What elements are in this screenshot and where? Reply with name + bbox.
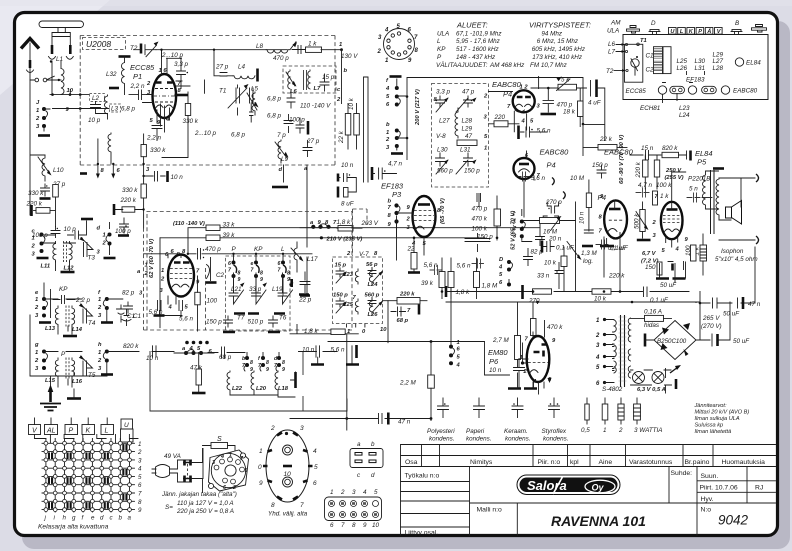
svg-text:2: 2 (270, 425, 275, 432)
svg-text:U: U (124, 422, 129, 429)
svg-text:Mittari 20 k/V (AVO B): Mittari 20 k/V (AVO B) (695, 410, 750, 416)
caps mid (250, 88, 254, 122)
svg-text:470 k: 470 k (472, 216, 488, 223)
switch matrix band selector (29, 425, 134, 443)
svg-text:VIRITYSPISTEET:: VIRITYSPISTEET: (529, 21, 591, 30)
svg-text:100: 100 (207, 298, 218, 305)
svg-text:6,8 p: 6,8 p (231, 132, 246, 139)
2,2p cap (53, 296, 75, 304)
1k power resistor (700, 245, 707, 261)
svg-text:4: 4 (313, 448, 317, 455)
svg-text:50 uF: 50 uF (723, 311, 740, 318)
svg-text:49 VA: 49 VA (164, 453, 181, 460)
svg-text:h: h (63, 515, 67, 522)
svg-text:VÄLITAAJUUDET:: VÄLITAAJUUDET: (436, 61, 488, 69)
svg-text:110 -140 V: 110 -140 V (300, 103, 331, 110)
svg-text:Kelasarja alta kuvattuna: Kelasarja alta kuvattuna (38, 524, 109, 531)
svg-text:100 k: 100 k (656, 182, 672, 189)
svg-text:EABC80: EABC80 (540, 148, 570, 157)
svg-text:L9: L9 (281, 156, 289, 163)
svg-text:L13: L13 (45, 326, 56, 332)
Salora Oy logo (517, 475, 620, 495)
b f d contact stacks over coils (242, 356, 285, 373)
EF183 tube (413, 196, 436, 237)
svg-text:5: 5 (374, 489, 378, 496)
svg-text:1: 1 (259, 448, 263, 455)
svg-text:Keraam.: Keraam. (504, 428, 528, 435)
svg-text:1,8 M: 1,8 M (482, 283, 499, 290)
dashed enclosure band filter (144, 212, 353, 331)
top feed wire (407, 78, 583, 160)
svg-text:2: 2 (595, 333, 600, 339)
svg-text:7: 7 (138, 491, 142, 498)
220k horizontal resistor (122, 207, 135, 212)
svg-text:(270 V): (270 V) (701, 323, 722, 330)
svg-text:100 k: 100 k (472, 226, 488, 233)
svg-text:L2: L2 (92, 95, 100, 102)
svg-text:d: d (100, 515, 104, 522)
T3 trimmer (81, 238, 93, 257)
svg-text:C1: C1 (646, 53, 654, 60)
svg-text:kpl: kpl (570, 459, 579, 466)
svg-text:(110 -140 V): (110 -140 V) (173, 221, 205, 227)
svg-text:6 Mhz, 15 Mhz: 6 Mhz, 15 Mhz (537, 38, 579, 45)
svg-text:P4: P4 (503, 90, 512, 99)
svg-text:62 V (60 -70 V): 62 V (60 -70 V) (149, 239, 155, 278)
dipole antenna (39, 21, 84, 28)
svg-text:3 WATTIA: 3 WATTIA (634, 427, 662, 434)
svg-text:2,2 M: 2,2 M (399, 380, 417, 387)
svg-text:5,6 n: 5,6 n (424, 262, 439, 269)
svg-text:470 p: 470 p (472, 206, 488, 213)
svg-text:EM80: EM80 (488, 348, 508, 357)
svg-text:e: e (251, 261, 254, 267)
68p cap (208, 347, 245, 358)
svg-text:L23: L23 (679, 105, 690, 112)
svg-text:L7: L7 (314, 86, 322, 92)
svg-text:(255 V): (255 V) (665, 175, 684, 181)
svg-text:10: 10 (372, 522, 380, 529)
svg-text:8: 8 (271, 502, 275, 509)
arrows 8 6 from U2008 box (98, 164, 113, 175)
svg-text:2,2 p: 2,2 p (75, 297, 91, 304)
svg-text:5,6 n: 5,6 n (331, 347, 346, 354)
svg-text:1 6: 1 6 (159, 68, 168, 74)
svg-text:1: 1 (603, 427, 607, 434)
title block table grid (401, 445, 776, 536)
svg-text:10 n: 10 n (341, 162, 354, 169)
svg-text:22 k: 22 k (338, 130, 345, 144)
svg-text:KP: KP (254, 246, 263, 253)
tube circles in layout (658, 86, 666, 94)
svg-text:4: 4 (363, 489, 367, 496)
svg-text:L11: L11 (41, 264, 51, 270)
svg-text:110 ja 127 V = 1,0 A: 110 ja 127 V = 1,0 A (177, 500, 234, 507)
svg-text:Nimitys: Nimitys (470, 459, 493, 466)
speaker (726, 207, 732, 218)
svg-text:AM: AM (610, 20, 621, 27)
matrix wires (42, 443, 135, 509)
svg-text:2...10 p: 2...10 p (194, 130, 217, 137)
svg-text:220: 220 (494, 114, 506, 121)
svg-text:P4: P4 (598, 195, 607, 202)
svg-text:KP: KP (437, 46, 446, 53)
svg-text:L31: L31 (460, 147, 471, 154)
svg-text:820 k: 820 k (662, 145, 678, 152)
svg-text:ULA: ULA (607, 28, 619, 35)
svg-text:L17: L17 (307, 256, 318, 263)
svg-text:U2008: U2008 (86, 39, 111, 49)
svg-text:1: 1 (36, 108, 39, 114)
EL84 tube (661, 202, 683, 239)
svg-text:L27: L27 (713, 58, 724, 65)
svg-text:L5: L5 (251, 86, 259, 93)
svg-text:5"x10" 4,5 ohm: 5"x10" 4,5 ohm (715, 256, 758, 263)
svg-text:100 p: 100 p (289, 117, 305, 124)
svg-text:150 p: 150 p (333, 293, 348, 299)
svg-text:b: b (371, 441, 375, 448)
svg-text:5,6 n: 5,6 n (537, 128, 552, 135)
oscillator sub box (226, 256, 291, 331)
svg-text:L16: L16 (72, 379, 83, 385)
svg-text:L4: L4 (238, 64, 246, 71)
svg-text:L30: L30 (437, 147, 448, 154)
svg-text:L18: L18 (278, 386, 289, 392)
L3 coil (105, 95, 108, 119)
1-10 connector strip (330, 489, 380, 529)
svg-text:10 k: 10 k (544, 260, 557, 267)
svg-text:d: d (371, 472, 375, 479)
svg-text:10 k: 10 k (348, 97, 355, 110)
svg-text:67,1 -101,9 Mhz: 67,1 -101,9 Mhz (456, 30, 502, 37)
svg-text:203 V: 203 V (361, 220, 379, 227)
svg-text:1,8 k: 1,8 k (337, 219, 352, 226)
svg-text:1: 1 (145, 263, 148, 269)
svg-text:5: 5 (138, 474, 142, 481)
svg-text:1: 1 (457, 340, 460, 346)
svg-text:18 k: 18 k (563, 109, 576, 116)
10n cap to ground bar (142, 175, 144, 177)
svg-text:6: 6 (228, 261, 231, 267)
svg-text:1 k: 1 k (660, 193, 669, 200)
svg-text:220 ja 250 V = 0,8 A: 220 ja 250 V = 0,8 A (176, 508, 234, 515)
svg-text:10: 10 (380, 327, 387, 333)
svg-text:8: 8 (250, 360, 253, 366)
dipole plug electrodes (52, 45, 70, 54)
svg-text:1: 1 (484, 146, 487, 152)
tuner shaft circle (631, 59, 639, 67)
svg-text:6,3 V 0,5 A: 6,3 V 0,5 A (637, 387, 666, 393)
svg-text:1: 1 (386, 130, 389, 136)
svg-text:L12: L12 (64, 266, 75, 272)
svg-text:L27: L27 (439, 118, 450, 125)
svg-text:Polyesteri: Polyesteri (427, 428, 455, 435)
L11 L12 coils (53, 242, 72, 263)
svg-text:0,1 uF: 0,1 uF (650, 297, 669, 304)
svg-text:39 k: 39 k (421, 280, 434, 287)
svg-text:0,1 uF: 0,1 uF (608, 245, 627, 252)
svg-text:470 p: 470 p (205, 246, 221, 253)
svg-text:P: P (698, 29, 702, 35)
svg-text:47 n: 47 n (398, 419, 411, 426)
svg-text:T1: T1 (219, 88, 226, 95)
heater lamps (633, 372, 645, 384)
svg-text:15 p: 15 p (335, 263, 347, 269)
cap row (636, 188, 649, 197)
antenna arrow (21, 39, 39, 49)
svg-text:100: 100 (685, 245, 692, 256)
tube pin wires (143, 50, 191, 132)
svg-text:3: 3 (300, 425, 304, 432)
svg-text:68 p: 68 p (219, 354, 232, 361)
svg-text:1: 1 (161, 268, 164, 274)
svg-text:200 V (217 V): 200 V (217 V) (415, 89, 421, 126)
wire to L2 (50, 95, 113, 109)
ECC85 tube P1 (153, 74, 177, 118)
svg-text:220 k: 220 k (608, 273, 625, 280)
svg-text:150 p: 150 p (477, 234, 493, 241)
svg-text:P6: P6 (489, 357, 499, 366)
svg-text:Huomautuksia: Huomautuksia (722, 459, 766, 466)
tuner sub box (625, 44, 643, 82)
svg-text:68 p: 68 p (397, 318, 409, 324)
svg-text:L8: L8 (256, 43, 264, 50)
arrow (670, 367, 678, 373)
svg-text:Oy: Oy (592, 483, 605, 493)
330k lower (141, 184, 146, 198)
svg-text:T3: T3 (88, 255, 96, 262)
svg-text:Malli n:o: Malli n:o (477, 507, 503, 514)
V-7 IF box (333, 257, 383, 324)
svg-text:C2: C2 (646, 67, 655, 74)
svg-text:g: g (72, 515, 76, 522)
svg-text:9: 9 (287, 277, 290, 283)
svg-text:L20: L20 (256, 386, 267, 392)
trimmer caps T7 T6 (229, 273, 293, 304)
svg-text:kondens.: kondens. (429, 436, 455, 443)
mains switch contacts (185, 460, 191, 482)
svg-text:220 k: 220 k (120, 197, 137, 204)
svg-text:3: 3 (352, 489, 356, 496)
svg-text:4: 4 (220, 454, 224, 460)
svg-text:hidas: hidas (644, 322, 660, 329)
svg-text:6,8 p: 6,8 p (121, 106, 136, 113)
svg-text:265 V: 265 V (702, 315, 720, 322)
svg-text:0,16 A: 0,16 A (644, 309, 662, 316)
svg-text:220 k: 220 k (635, 161, 642, 178)
svg-text:6: 6 (138, 482, 142, 489)
svg-text:AL: AL (46, 428, 56, 435)
antenna lead wire (29, 43, 31, 80)
dashed link to V-7 (353, 209, 368, 256)
svg-text:60 -90 V (70 -90 V): 60 -90 V (70 -90 V) (619, 135, 625, 184)
svg-text:L6: L6 (290, 89, 298, 95)
50uF + 47n caps right (700, 298, 755, 308)
svg-text:log.: log. (583, 258, 593, 265)
svg-text:C2: C2 (216, 272, 225, 279)
210V supply rail (413, 226, 416, 229)
svg-text:5 n: 5 n (689, 186, 698, 193)
svg-text:Piirt. 10.7.06: Piirt. 10.7.06 (700, 485, 738, 492)
svg-text:1: 1 (98, 350, 101, 356)
svg-text:1,3 M: 1,3 M (581, 250, 598, 257)
svg-text:27 p: 27 p (215, 64, 229, 71)
svg-text:P2201B: P2201B (688, 176, 710, 183)
svg-text:L29: L29 (462, 126, 473, 133)
svg-text:15 p: 15 p (322, 74, 335, 81)
svg-text:4,7 n: 4,7 n (388, 161, 403, 168)
svg-text:6: 6 (313, 480, 317, 487)
svg-text:9: 9 (260, 277, 263, 283)
L10 variable coil (38, 155, 50, 181)
svg-text:5,6 n: 5,6 n (457, 263, 472, 270)
svg-text:V-7: V-7 (359, 251, 369, 258)
svg-text:Liittyy osal.: Liittyy osal. (405, 530, 439, 537)
svg-text:330 k: 330 k (28, 190, 44, 197)
svg-text:330 k: 330 k (183, 118, 199, 125)
svg-text:RJ: RJ (755, 485, 763, 492)
ground bars (656, 277, 686, 280)
svg-text:5: 5 (314, 464, 318, 471)
svg-text:1: 1 (35, 350, 38, 356)
svg-text:4: 4 (138, 466, 142, 473)
core (621, 315, 625, 387)
svg-text:33 p: 33 p (249, 286, 262, 293)
svg-text:220 k: 220 k (26, 201, 43, 208)
svg-text:kondens.: kondens. (466, 436, 492, 443)
svg-text:6,8 p: 6,8 p (267, 113, 282, 120)
svg-text:Paperi: Paperi (466, 428, 485, 435)
svg-text:T6: T6 (279, 315, 287, 322)
svg-text:T5: T5 (88, 372, 96, 379)
svg-text:L25: L25 (343, 302, 354, 308)
svg-text:ULA: ULA (437, 30, 449, 37)
svg-text:9: 9 (138, 507, 142, 514)
chassis layout box (623, 35, 768, 100)
svg-text:B250C100: B250C100 (657, 338, 687, 345)
svg-text:9: 9 (266, 367, 269, 373)
2,2n cathode cap (152, 110, 162, 141)
svg-text:Suhde:: Suhde: (671, 470, 693, 477)
svg-text:1: 1 (229, 453, 232, 459)
svg-text:a: a (357, 441, 361, 448)
svg-text:220 k: 220 k (399, 292, 415, 298)
svg-text:RAVENNA 101: RAVENNA 101 (551, 513, 646, 529)
legend: paper capacitor symbol (474, 398, 485, 418)
svg-text:d: d (97, 226, 101, 232)
ground bar (80, 172, 87, 175)
svg-text:2,2 n: 2,2 n (130, 83, 146, 90)
svg-text:L19: L19 (272, 286, 283, 293)
svg-text:10 n: 10 n (579, 211, 586, 224)
svg-text:g: g (34, 342, 39, 348)
svg-text:8: 8 (266, 360, 269, 366)
svg-text:8: 8 (138, 499, 142, 506)
svg-text:22 k: 22 k (599, 136, 613, 143)
svg-text:Suun.: Suun. (701, 473, 719, 480)
svg-text:L32: L32 (106, 71, 117, 78)
svg-text:Ilman lähetettä: Ilman lähetettä (695, 429, 732, 435)
U box (121, 419, 133, 429)
svg-text:Isophon: Isophon (721, 248, 744, 255)
svg-text:b: b (344, 68, 348, 74)
svg-text:173 kHz, 410 kHz: 173 kHz, 410 kHz (532, 54, 583, 61)
svg-text:10 n: 10 n (302, 347, 315, 354)
right screw terminal (752, 25, 766, 33)
svg-text:5,6 n: 5,6 n (531, 175, 546, 182)
svg-text:L23: L23 (343, 272, 354, 278)
svg-text:7: 7 (341, 522, 345, 529)
svg-text:7: 7 (300, 502, 304, 509)
svg-text:500 k: 500 k (634, 213, 641, 229)
svg-text:47 p: 47 p (462, 89, 475, 96)
svg-text:T2: T2 (606, 68, 614, 75)
svg-text:L: L (281, 246, 285, 253)
svg-text:22 p: 22 p (298, 297, 312, 304)
svg-text:V-8: V-8 (436, 133, 446, 140)
svg-text:L22: L22 (232, 386, 243, 392)
svg-text:8: 8 (352, 522, 356, 529)
svg-text:1: 1 (103, 233, 106, 239)
svg-text:L: L (680, 29, 684, 35)
svg-text:EABC80: EABC80 (492, 80, 522, 89)
svg-text:470 p: 470 p (557, 102, 573, 109)
svg-text:82 p: 82 p (122, 290, 135, 297)
svg-text:d: d (279, 167, 283, 173)
svg-text:L28: L28 (713, 65, 724, 72)
100 resistor (691, 245, 697, 261)
svg-text:e: e (91, 515, 95, 522)
svg-text:L26: L26 (368, 312, 379, 318)
bridge rectifier B250C100 (654, 321, 696, 360)
svg-text:10 n: 10 n (171, 174, 184, 181)
svg-text:15 n: 15 n (641, 145, 654, 152)
svg-text:8: 8 (282, 360, 285, 366)
svg-text:4: 4 (384, 28, 389, 34)
svg-text:1 2: 1 2 (520, 85, 529, 91)
long bottom wires (150, 352, 347, 412)
svg-text:150 p: 150 p (592, 162, 608, 169)
svg-text:L31: L31 (695, 65, 706, 72)
svg-text:P: P (69, 428, 74, 435)
T5 trimmer (81, 356, 93, 375)
svg-text:94 Mhz: 94 Mhz (541, 30, 563, 37)
ground bars under EM80 (508, 387, 537, 390)
ground rail with 270 and 10k (446, 291, 689, 293)
voltage selector socket (209, 450, 249, 491)
svg-text:EL84: EL84 (746, 60, 761, 67)
matrix coil bars (48, 444, 128, 509)
svg-text:1: 1 (330, 489, 334, 496)
svg-text:a: a (128, 515, 132, 522)
5,6n caps under ECH81 wires (158, 301, 183, 317)
svg-text:2,7 M: 2,7 M (492, 337, 510, 344)
svg-text:10: 10 (67, 88, 74, 94)
svg-text:6,7 V: 6,7 V (642, 251, 657, 257)
svg-text:1 k: 1 k (308, 41, 317, 48)
svg-text:1: 1 (339, 42, 342, 48)
earth ground symbol (49, 389, 52, 402)
L2 input coil (90, 94, 105, 102)
svg-text:ALUEET:: ALUEET: (456, 21, 488, 30)
svg-text:10 p: 10 p (88, 117, 101, 124)
svg-text:8 uF: 8 uF (341, 201, 355, 208)
svg-text:1: 1 (35, 297, 38, 303)
svg-text:b: b (119, 515, 123, 522)
svg-text:2: 2 (377, 49, 382, 55)
8uF cap (337, 187, 340, 198)
svg-text:10 p: 10 p (64, 226, 77, 233)
